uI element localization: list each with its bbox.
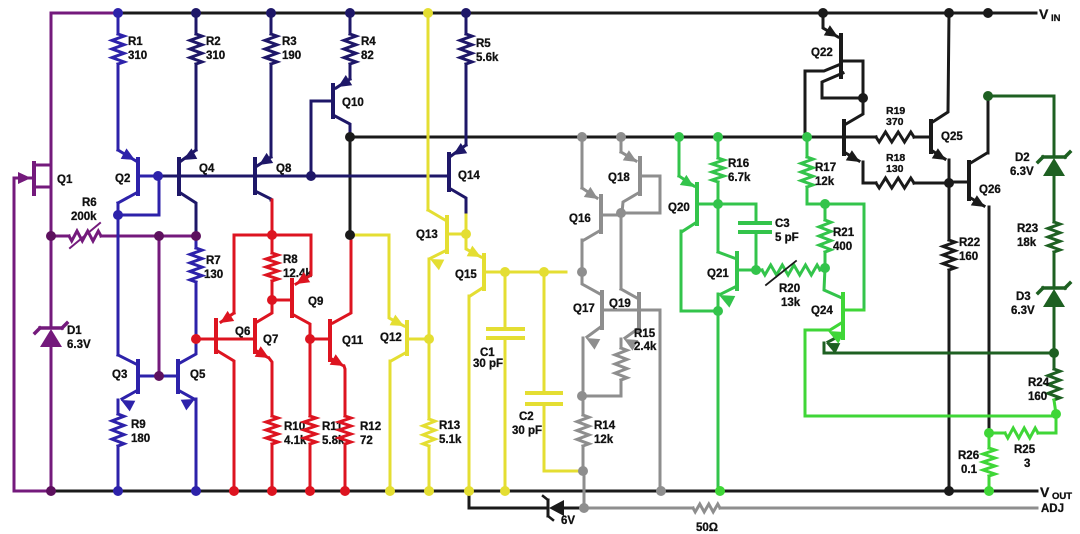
capacitor C2 xyxy=(543,272,546,392)
resistor R6 xyxy=(69,231,101,241)
svg-text:Q18: Q18 xyxy=(608,172,630,184)
svg-text:R14: R14 xyxy=(594,420,616,432)
svg-text:5.1k: 5.1k xyxy=(439,434,462,446)
svg-text:Q6: Q6 xyxy=(235,326,250,338)
svg-text:V: V xyxy=(1039,6,1049,22)
wire bottom V_OUT rail xyxy=(51,490,1037,493)
svg-text:5 pF: 5 pF xyxy=(775,232,799,244)
svg-text:R24: R24 xyxy=(1028,377,1050,389)
transistor Q7 xyxy=(218,338,255,341)
svg-text:Q2: Q2 xyxy=(115,173,130,185)
transistor Q10 xyxy=(331,85,335,117)
resistor R9 xyxy=(112,414,124,446)
svg-text:R13: R13 xyxy=(439,420,460,432)
svg-text:R9: R9 xyxy=(131,419,146,431)
svg-text:V: V xyxy=(1040,484,1050,500)
svg-text:12k: 12k xyxy=(815,176,835,188)
wire green Q24 base path xyxy=(825,204,864,310)
transistor Q12 xyxy=(350,235,404,326)
svg-text:Q13: Q13 xyxy=(416,229,438,241)
svg-text:3: 3 xyxy=(1024,458,1030,470)
resistor R12 xyxy=(339,416,351,444)
svg-text:R15: R15 xyxy=(634,328,656,340)
svg-text:D3: D3 xyxy=(1016,291,1031,303)
resistor R3 xyxy=(270,13,273,34)
svg-text:R25: R25 xyxy=(1014,444,1036,456)
svg-text:D2: D2 xyxy=(1015,152,1030,164)
transistor Q11 xyxy=(333,235,351,323)
svg-text:R21: R21 xyxy=(833,227,855,239)
capacitor C3 xyxy=(718,203,756,206)
wire red Q8-collector drop xyxy=(271,200,274,235)
wire light green bottom bus xyxy=(805,415,1056,418)
svg-text:5.6k: 5.6k xyxy=(476,52,499,64)
transistor Q4 xyxy=(177,159,181,194)
transistor Q17 xyxy=(582,272,600,294)
svg-text:Q1: Q1 xyxy=(57,174,73,186)
resistor R15 xyxy=(615,348,627,380)
svg-text:R8: R8 xyxy=(283,254,298,266)
resistor R18 xyxy=(863,182,876,185)
svg-text:R17: R17 xyxy=(815,162,836,174)
svg-text:Q5: Q5 xyxy=(190,369,206,381)
svg-text:180: 180 xyxy=(131,433,150,445)
resistor R17 xyxy=(806,137,809,157)
svg-text:Q7: Q7 xyxy=(263,334,278,346)
svg-text:370: 370 xyxy=(886,116,904,128)
svg-text:18k: 18k xyxy=(1017,237,1037,249)
resistor R25 xyxy=(1038,414,1056,433)
resistor R11 xyxy=(309,339,312,416)
wire red bias bus xyxy=(234,234,311,237)
wire yellow Q14-Q13 link xyxy=(465,215,468,234)
svg-text:R22: R22 xyxy=(959,237,980,249)
svg-text:Q4: Q4 xyxy=(199,163,215,175)
svg-text:Q11: Q11 xyxy=(342,335,364,347)
transistor Q16 xyxy=(581,137,584,188)
svg-text:2.4k: 2.4k xyxy=(634,341,657,353)
svg-text:Q24: Q24 xyxy=(811,305,833,317)
svg-text:C2: C2 xyxy=(519,411,534,423)
svg-text:160: 160 xyxy=(1028,391,1047,403)
resistor R7 xyxy=(195,236,198,248)
wire blue base bus xyxy=(158,175,449,178)
transistor Q24 dark emitter xyxy=(828,334,843,342)
svg-text:Q20: Q20 xyxy=(668,202,690,214)
svg-text:30 pF: 30 pF xyxy=(512,425,542,437)
svg-text:Q22: Q22 xyxy=(811,47,833,59)
transistor Q2 xyxy=(136,159,140,194)
wire ADJ line right xyxy=(720,507,1037,510)
svg-text:6.7k: 6.7k xyxy=(728,172,751,184)
diode 6V zener xyxy=(549,500,564,516)
svg-text:130: 130 xyxy=(204,269,223,281)
wire gray to ADJ xyxy=(583,471,586,508)
transistor Q1 xyxy=(32,163,36,194)
svg-text:Q8: Q8 xyxy=(276,163,292,175)
wire gray Q18-Q19 link xyxy=(620,215,623,289)
svg-text:IN: IN xyxy=(1051,13,1061,24)
wire purple top segment xyxy=(51,12,118,15)
svg-text:130: 130 xyxy=(886,163,904,175)
wire Q2 collector column xyxy=(117,203,120,355)
resistor R14 xyxy=(582,396,585,415)
svg-text:R3: R3 xyxy=(282,36,297,48)
svg-text:Q3: Q3 xyxy=(112,369,127,381)
resistor R20 xyxy=(756,269,762,272)
wire mid black bias line right xyxy=(914,136,931,139)
resistor R21 xyxy=(824,204,827,220)
svg-text:R20: R20 xyxy=(779,283,800,295)
resistor R16 xyxy=(717,137,720,158)
svg-text:0.1: 0.1 xyxy=(961,464,978,476)
svg-text:R2: R2 xyxy=(206,36,221,48)
svg-text:82: 82 xyxy=(361,50,374,62)
svg-text:D1: D1 xyxy=(67,325,82,337)
wire ADJ line left xyxy=(584,507,693,510)
svg-text:200k: 200k xyxy=(71,211,97,223)
wire yellow top column xyxy=(427,13,430,210)
svg-text:R5: R5 xyxy=(476,38,491,50)
resistor R5 xyxy=(465,13,468,34)
transistor Q21 xyxy=(717,204,720,252)
svg-text:Q14: Q14 xyxy=(458,170,480,182)
transistor Q24 xyxy=(841,294,845,338)
svg-text:Q19: Q19 xyxy=(609,298,631,310)
transistor Q18 xyxy=(620,137,623,152)
svg-text:6.3V: 6.3V xyxy=(1010,166,1034,178)
transistor Q5 xyxy=(176,361,180,392)
svg-text:310: 310 xyxy=(128,50,147,62)
svg-text:6.3V: 6.3V xyxy=(1011,305,1035,317)
wire dark green bus xyxy=(824,352,1054,355)
resistor R1 xyxy=(117,13,120,34)
wire light green bus overlay xyxy=(940,415,1000,418)
svg-text:Q26: Q26 xyxy=(979,184,1001,196)
svg-text:72: 72 xyxy=(360,435,373,447)
svg-text:Q10: Q10 xyxy=(342,97,364,109)
svg-text:190: 190 xyxy=(282,50,301,62)
svg-text:400: 400 xyxy=(833,241,852,253)
svg-text:30 pF: 30 pF xyxy=(473,358,503,370)
transistor Q14 xyxy=(447,154,451,190)
wire dark green bus overlay xyxy=(940,352,1000,355)
resistor R2 xyxy=(195,13,198,34)
svg-text:ADJ: ADJ xyxy=(1041,503,1064,515)
resistor R24 xyxy=(1053,307,1056,369)
resistor R19 xyxy=(876,132,914,142)
svg-text:R26: R26 xyxy=(958,450,979,462)
transistor Q25 xyxy=(929,121,933,152)
transistor Q23 xyxy=(822,73,863,98)
svg-text:R7: R7 xyxy=(206,255,221,267)
resistor R22 xyxy=(948,183,951,240)
svg-text:13k: 13k xyxy=(781,297,801,309)
capacitor C1 xyxy=(504,272,507,328)
resistor R8 xyxy=(271,235,274,253)
svg-text:Q16: Q16 xyxy=(569,213,591,225)
resistor R4 xyxy=(349,13,352,34)
resistor R10 xyxy=(266,416,278,444)
wire black Vout step xyxy=(469,491,547,508)
wire black bias drop xyxy=(349,137,352,235)
diode D3 zener 6.3V xyxy=(1043,286,1065,290)
svg-text:OUT: OUT xyxy=(1052,491,1072,502)
svg-text:50Ω: 50Ω xyxy=(696,522,718,534)
transistor Q6 xyxy=(233,235,236,313)
svg-text:160: 160 xyxy=(959,251,978,263)
svg-text:Q9: Q9 xyxy=(308,296,323,308)
transistor Q19 xyxy=(637,294,641,330)
svg-text:R1: R1 xyxy=(128,36,143,48)
wire gray base line to Vout xyxy=(602,310,660,491)
svg-text:Q25: Q25 xyxy=(941,131,963,143)
transistor Q13 xyxy=(428,210,445,220)
svg-text:R4: R4 xyxy=(361,36,376,48)
svg-text:R6: R6 xyxy=(82,197,97,209)
transistor Q3 xyxy=(136,361,140,392)
svg-text:310: 310 xyxy=(206,50,225,62)
wire mid black bias line xyxy=(350,136,876,139)
svg-text:Q21: Q21 xyxy=(707,268,729,280)
transistor Q26 xyxy=(967,162,971,199)
wire purple left column xyxy=(50,13,53,326)
svg-text:R16: R16 xyxy=(728,158,749,170)
transistor Q20 xyxy=(678,137,681,176)
svg-text:Q12: Q12 xyxy=(380,332,402,344)
svg-text:Q15: Q15 xyxy=(455,269,477,281)
wire green emitter to Vout xyxy=(717,311,720,491)
wire purple bottom-left segment xyxy=(14,178,51,491)
svg-text:R12: R12 xyxy=(360,421,381,433)
transistor Q9 xyxy=(296,235,311,284)
transistor Q22 xyxy=(823,13,838,37)
transistor Q8 xyxy=(253,159,257,193)
resistor R26 xyxy=(988,433,991,448)
wire dark green top xyxy=(988,96,1054,157)
wire purple bias vertical xyxy=(158,236,161,376)
svg-text:12k: 12k xyxy=(594,434,614,446)
transistor Q15 xyxy=(466,234,481,257)
diode D1 zener 6.3V xyxy=(40,326,62,330)
wire green Q24 top xyxy=(824,268,842,298)
svg-text:R23: R23 xyxy=(1017,223,1038,235)
junction dots xyxy=(113,8,123,18)
svg-text:6V: 6V xyxy=(561,515,575,527)
resistor 50ohm xyxy=(693,504,720,512)
resistor R23 xyxy=(1053,176,1056,222)
svg-text:6.3V: 6.3V xyxy=(67,339,91,351)
svg-text:C3: C3 xyxy=(775,218,790,230)
svg-text:Q17: Q17 xyxy=(573,303,595,315)
wire top V_IN rail xyxy=(51,12,1036,15)
wire purple below D1 xyxy=(50,347,53,491)
diode D2 zener 6.3V xyxy=(1043,155,1065,159)
resistor R13 xyxy=(423,419,435,446)
